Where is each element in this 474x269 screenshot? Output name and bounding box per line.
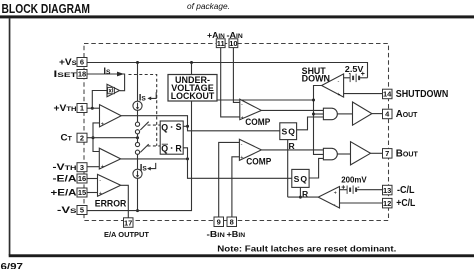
svg-text:11: 11	[217, 39, 225, 48]
svg-text:+: +	[337, 92, 340, 98]
svg-text:2.5V: 2.5V	[345, 64, 364, 74]
pin 18 ISET	[54, 69, 88, 79]
svg-text:of package.: of package.	[187, 2, 230, 11]
wire comparator B output to AND B	[261, 149, 323, 151]
pin 7 BOUT	[383, 149, 419, 160]
svg-text:CT: CT	[61, 133, 73, 143]
wire ISET arrow from pin 18	[87, 72, 125, 91]
svg-text:14: 14	[383, 90, 392, 99]
op-amp shutdown comparator	[322, 74, 344, 98]
svg-text:16: 16	[78, 174, 86, 183]
svg-text:-: -	[241, 142, 243, 148]
label 2.5V	[345, 64, 364, 74]
frame left border	[9, 18, 11, 255]
pin 10 -AIN	[227, 30, 244, 48]
svg-text:-: -	[338, 78, 340, 84]
wire driver B to pin 7	[371, 152, 383, 154]
svg-text:IS: IS	[139, 92, 146, 102]
svg-text:+: +	[101, 164, 104, 170]
label R latch A	[289, 141, 296, 151]
wire pin 10 -AIN to comparator A	[233, 48, 239, 103]
wire comp2 output to R node	[121, 158, 188, 160]
current source Is 2	[133, 169, 142, 178]
node CT at switch column	[136, 136, 139, 139]
wire -Vs rail from pin 5 up to UVLO	[87, 101, 192, 211]
flip-flop latch B S Q	[292, 169, 309, 187]
op-amp PWM comparator A	[240, 99, 262, 121]
wire dashed control Q to switch 1	[148, 124, 161, 126]
dashed IC outline	[84, 44, 389, 221]
svg-text:-BIN: -BIN	[207, 229, 226, 239]
op-amp ERROR amplifier	[98, 174, 121, 197]
pin 4 AOUT	[383, 109, 418, 120]
wire UVLO to +Vs rail	[191, 63, 193, 75]
gate AND B	[323, 148, 337, 160]
svg-text:9: 9	[217, 218, 221, 227]
gate AND A	[323, 108, 337, 120]
svg-text:7: 7	[385, 149, 389, 158]
wire xI input from +VTH node	[92, 91, 107, 108]
svg-text:E/A OUTPUT: E/A OUTPUT	[104, 230, 149, 239]
op-amp current limit comparator	[318, 187, 339, 209]
node Is2 on -Vs rail	[136, 209, 139, 212]
svg-text:-: -	[241, 102, 243, 108]
svg-text:18: 18	[78, 70, 86, 79]
svg-text:Q: Q	[288, 127, 295, 137]
wire driver A to pin 4	[372, 113, 383, 115]
buffer driver A	[353, 102, 372, 125]
node gate bus AND A junction	[312, 113, 315, 116]
svg-text:BOUT: BOUT	[396, 149, 419, 160]
flip-flop latch A S Q	[280, 123, 297, 140]
svg-text:SHUTDOWN: SHUTDOWN	[396, 89, 449, 100]
battery 200mV offset	[340, 184, 383, 194]
wire pin 12 to current limit comparator	[340, 202, 383, 204]
svg-text:COMP: COMP	[245, 117, 270, 127]
wire switch2 to Is2	[137, 154, 139, 169]
svg-text:S: S	[176, 122, 182, 132]
svg-text:-E/A: -E/A	[53, 173, 77, 183]
wire shutdown output down the gate bus	[314, 86, 324, 155]
pin 12 +C/L	[383, 198, 416, 209]
svg-text:R: R	[289, 141, 296, 151]
node xI tap on pin1 wire	[91, 107, 94, 110]
title BLOCK DIAGRAM	[2, 2, 91, 16]
svg-text:Q: Q	[161, 122, 168, 132]
wire pin 16 to error amp	[87, 178, 98, 180]
wire pin 8 +BIN to comparator B	[232, 157, 240, 217]
wire Is2 down to -Vs rail	[137, 178, 139, 210]
svg-text:IS: IS	[104, 66, 111, 76]
pin 5 -Vs	[57, 205, 87, 215]
flip-flop oscillator latch Q S / Qbar R	[160, 121, 183, 154]
svg-text:LOCKOUT: LOCKOUT	[171, 91, 215, 101]
label 200mV	[341, 174, 367, 184]
thick rule under title	[0, 15, 474, 18]
wire pin 15 to error amp	[87, 192, 98, 194]
svg-text:6/97: 6/97	[1, 262, 24, 269]
pin 9 -BIN	[207, 217, 226, 239]
svg-text:Note: Fault latches are reset: Note: Fault latches are reset dominant.	[217, 244, 396, 253]
wire current limit output bus	[288, 196, 319, 198]
wire comparator A output to AND A	[261, 109, 323, 111]
svg-text:AOUT: AOUT	[396, 109, 418, 120]
pin 6 +Vs	[59, 57, 87, 67]
node gate bus UVLO junction	[312, 99, 315, 102]
wire pin 1 to oscillator comparator 1	[87, 107, 100, 109]
block under-voltage lockout	[168, 75, 217, 102]
node rail-Is1 junction	[136, 61, 139, 64]
svg-text:+C/L: +C/L	[396, 198, 415, 209]
svg-text:S: S	[282, 127, 288, 137]
svg-text:COMP: COMP	[246, 156, 271, 166]
pin 3 -VTH	[53, 162, 88, 172]
svg-text:1: 1	[80, 104, 84, 113]
wire R node down to latch B set line	[188, 159, 292, 178]
svg-text:-: -	[357, 184, 359, 191]
pin 14 SHUTDOWN	[383, 89, 449, 100]
svg-text:-C/L: -C/L	[397, 185, 415, 196]
wire latch B Q output to AND B	[309, 158, 323, 178]
pin 8 +BIN	[227, 217, 246, 239]
wire gate bus to AND A middle input	[314, 113, 324, 115]
label R latch B	[302, 189, 309, 199]
svg-text:17: 17	[124, 218, 132, 227]
wire pin 9 -BIN to comparator B	[219, 142, 240, 217]
label Is near source 1	[139, 92, 156, 102]
wire comp1 lower input from CT node	[93, 123, 100, 152]
svg-text:R: R	[175, 143, 182, 153]
wire Is1 to switch 1	[137, 110, 139, 122]
wire comp1 output to S node	[121, 116, 280, 131]
current source Is 1	[133, 101, 142, 110]
svg-text:+VS: +VS	[59, 57, 77, 67]
svg-text:-: -	[334, 202, 336, 208]
label SHUT DOWN	[302, 66, 330, 83]
pin 15 +E/A	[51, 187, 88, 197]
wire latch R to R node	[183, 148, 187, 159]
wire latch A reset line down to C/L bus	[287, 140, 289, 198]
svg-text:6: 6	[80, 58, 84, 67]
svg-text:IS: IS	[140, 162, 147, 172]
svg-text:3: 3	[80, 163, 84, 172]
wire latch A Q output to AND A	[297, 117, 324, 130]
op-amp oscillator comparator 1 (+VTH)	[100, 105, 122, 128]
svg-text:2: 2	[80, 133, 84, 142]
svg-text:-: -	[99, 178, 101, 184]
wire dashed control Qbar to switch 2	[148, 145, 161, 147]
node latch B reset junction	[299, 196, 302, 199]
label COMP B	[246, 156, 271, 166]
svg-text:-VS: -VS	[57, 205, 77, 215]
svg-text:S: S	[294, 174, 300, 184]
wire Is1 from rail	[137, 63, 139, 102]
label Is (ISET current)	[104, 66, 111, 76]
svg-text:12: 12	[383, 199, 391, 208]
wire ISET dashed programming net	[129, 75, 157, 146]
svg-text:+AIN: +AIN	[207, 30, 225, 40]
footer 6/97	[1, 262, 24, 269]
switch 1 (Q controlled)	[135, 122, 148, 134]
frame bottom line	[9, 254, 474, 257]
wire switch1 to CT node	[137, 134, 139, 143]
op-amp oscillator comparator 2 (-VTH)	[99, 148, 120, 170]
pin 16 -E/A	[53, 173, 88, 183]
svg-text:ISET: ISET	[54, 69, 78, 79]
wire error amp output to pin 17	[121, 185, 129, 218]
svg-text:8: 8	[230, 218, 234, 227]
wire +Vs rail from pin 6 to 2.5V battery	[87, 63, 368, 78]
wire pin 3 to comp2 lower input	[87, 166, 99, 168]
svg-text:+BIN: +BIN	[227, 229, 246, 239]
svg-text:5: 5	[80, 206, 84, 215]
label ERROR	[95, 198, 127, 209]
op-amp PWM comparator B	[239, 139, 261, 161]
svg-text:10: 10	[229, 39, 237, 48]
pin 13 -C/L	[383, 185, 415, 196]
svg-text:+: +	[99, 191, 102, 197]
svg-text:+: +	[101, 121, 104, 127]
buffer driver B	[351, 142, 371, 165]
battery 2.5V reference	[344, 71, 368, 83]
pin 2 CT	[61, 133, 88, 143]
fragment text "of package."	[187, 2, 230, 11]
wire pin 2 CT line	[87, 137, 138, 139]
label Is near source 2	[140, 162, 156, 172]
wire pin 14 to shutdown comparator	[344, 93, 383, 95]
svg-text:13: 13	[383, 186, 391, 195]
svg-text:-VTH: -VTH	[53, 162, 77, 172]
wire AND A output to driver A	[337, 113, 352, 115]
node R junction	[186, 157, 189, 160]
wire latch S to S node	[183, 125, 187, 127]
svg-text:+: +	[341, 184, 345, 191]
svg-text:Q: Q	[161, 143, 168, 153]
svg-text:ERROR: ERROR	[95, 198, 127, 209]
node CT junction at comparator column	[92, 136, 95, 139]
svg-text:DOWN: DOWN	[302, 74, 330, 84]
pin 1 +VTH	[54, 103, 88, 113]
PINS	[51, 30, 449, 239]
svg-text:xI: xI	[108, 89, 113, 95]
svg-text:+: +	[241, 115, 244, 121]
svg-text:+VTH: +VTH	[54, 103, 77, 113]
svg-text:200mV: 200mV	[341, 174, 367, 184]
switch 2 (Qbar controlled)	[135, 142, 148, 154]
svg-text:+: +	[240, 155, 243, 161]
amp xI current multiplier	[107, 84, 120, 96]
wire latch B reset to C/L bus	[299, 187, 301, 197]
svg-text:+E/A: +E/A	[51, 187, 77, 197]
wire pin 11 +AIN to comparator A	[221, 48, 240, 117]
svg-text:BLOCK DIAGRAM: BLOCK DIAGRAM	[2, 2, 91, 16]
note: fault latches	[217, 244, 396, 253]
svg-text:15: 15	[78, 188, 86, 197]
wire AND B output to driver B	[337, 153, 350, 155]
node S junction	[186, 125, 189, 128]
wire UVLO output to gate line	[217, 99, 314, 101]
label COMP A	[245, 117, 270, 127]
node rail-UVLO junction	[190, 61, 193, 64]
svg-text:+: +	[334, 191, 337, 197]
pin 17 E/A OUTPUT	[104, 218, 149, 239]
svg-text:Q: Q	[300, 174, 307, 184]
pin 11 +AIN	[207, 30, 225, 48]
svg-text:-AIN: -AIN	[227, 30, 244, 40]
